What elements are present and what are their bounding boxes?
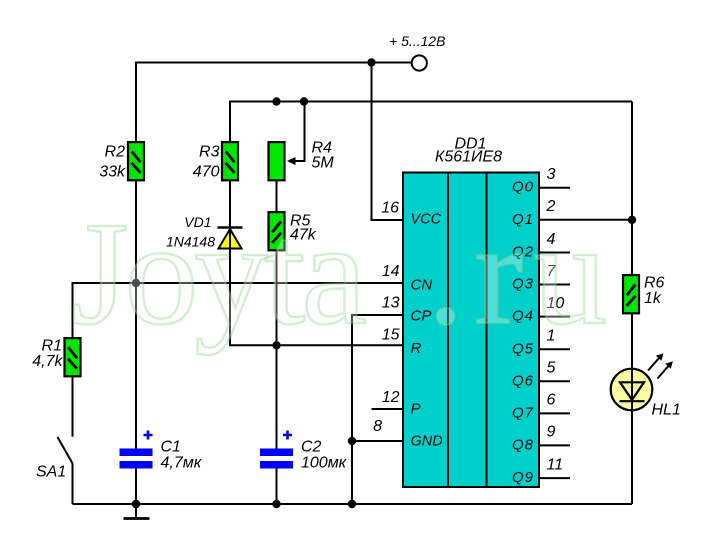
wire switch bottom lead <box>72 464 74 505</box>
wire right rail (Q1 to R6, LED, ground rail) <box>631 102 633 505</box>
node CN/R2/C1 junction <box>132 279 140 287</box>
wire output Q9 pin 11 <box>539 477 570 479</box>
wire R2 bottom to C1 <box>135 181 137 449</box>
svg-text:C2: C2 <box>301 439 322 456</box>
svg-text:33k: 33k <box>99 164 126 181</box>
diode VD1 1N4148 <box>219 229 242 249</box>
wire P stub (pin 12) <box>372 408 404 410</box>
svg-text:R1: R1 <box>42 338 62 355</box>
node Q1 junction <box>628 216 636 224</box>
resistor R5 <box>269 212 285 250</box>
svg-text:К561ИЕ8: К561ИЕ8 <box>435 149 502 166</box>
svg-text:16: 16 <box>381 200 399 217</box>
resistor R6 <box>623 275 639 313</box>
svg-text:HL1: HL1 <box>652 402 681 419</box>
wire +V top rail (R2 top to power terminal) <box>136 63 412 142</box>
ground symbol <box>135 504 137 518</box>
wire R4-R5 link <box>276 181 278 211</box>
wire output Q5 pin 1 <box>539 348 570 350</box>
svg-text:4,7мк: 4,7мк <box>161 455 203 472</box>
wire R4 wiper arm <box>294 102 305 162</box>
LED arrows <box>648 356 670 378</box>
C2 plus sign <box>283 431 292 440</box>
svg-text:P: P <box>411 401 421 418</box>
node CP ground junction <box>348 500 356 508</box>
wire output Q3 pin 7 <box>539 284 570 286</box>
svg-text:R: R <box>411 340 422 357</box>
node C1 ground junction <box>132 500 140 508</box>
wire GND pin 8 <box>352 440 403 442</box>
node C2 ground junction <box>272 500 280 508</box>
wire R3/VD1 column to pin 15 (R net) <box>230 181 403 345</box>
svg-text:R3: R3 <box>199 144 220 161</box>
LED HL1 <box>611 369 653 411</box>
svg-text:15: 15 <box>382 327 400 344</box>
svg-text:470: 470 <box>193 164 220 181</box>
svg-text:14: 14 <box>382 263 400 280</box>
svg-text:9: 9 <box>547 424 556 441</box>
node R4 top junction <box>272 97 280 105</box>
node R4 wiper junction <box>300 97 308 105</box>
wire output Q4 pin 10 <box>539 316 570 318</box>
svg-text:6: 6 <box>547 392 556 409</box>
potentiometer R4 <box>269 142 285 180</box>
svg-text:Q8: Q8 <box>512 436 534 453</box>
svg-text:5M: 5M <box>312 155 335 172</box>
svg-text:12: 12 <box>382 389 400 406</box>
svg-text:R2: R2 <box>105 144 126 161</box>
wire output Q6 pin 5 <box>539 380 570 382</box>
resistor R3 <box>222 142 238 180</box>
svg-text:+ 5...12В: + 5...12В <box>389 33 445 49</box>
wire bottom ground rail <box>73 503 633 505</box>
capacitor C2 <box>260 449 293 457</box>
C1 plus sign <box>144 431 153 440</box>
resistor R1 <box>65 338 81 376</box>
switch SA1 blade <box>58 437 73 464</box>
wire VD1 lead overlay <box>229 228 231 250</box>
svg-text:11: 11 <box>547 456 564 473</box>
wire CP net (pin 13 to ground rail) <box>352 315 403 504</box>
node power junction <box>367 58 375 66</box>
wire output Q1 pin 2 <box>539 219 632 221</box>
wire feedback top rail (R3 top, R4 top, to right rail) <box>230 102 632 142</box>
svg-text:C1: C1 <box>161 439 181 456</box>
svg-text:GND: GND <box>411 434 443 450</box>
wire C2 bottom lead <box>276 469 278 505</box>
wire VCC feed (pin 16) <box>372 63 404 221</box>
IC DD1 K561IE8 body <box>403 173 539 488</box>
svg-text:8: 8 <box>373 418 382 435</box>
wire output Q7 pin 6 <box>539 412 570 414</box>
capacitor C1 <box>120 449 153 457</box>
node R net / R5-C2 junction <box>272 341 280 349</box>
wire C1 bottom lead <box>135 469 137 505</box>
wire output Q8 pin 9 <box>539 444 570 446</box>
wire R1 bottom to switch <box>72 378 74 437</box>
svg-text:Q7: Q7 <box>512 404 534 421</box>
wire output Q0 pin 3 <box>539 187 570 189</box>
svg-text:R6: R6 <box>644 275 665 292</box>
R4 wiper arrowhead <box>287 157 296 165</box>
wire CN net (left rail top, R2 bottom, C1 top, to pin 14) <box>73 283 404 337</box>
svg-text:13: 13 <box>382 295 400 312</box>
svg-text:100мк: 100мк <box>301 455 348 472</box>
wire output Q2 pin 4 <box>539 252 570 254</box>
resistor R2 <box>128 142 144 180</box>
svg-text:SA1: SA1 <box>36 464 66 481</box>
svg-text:5: 5 <box>547 360 556 377</box>
svg-text:Q9: Q9 <box>512 469 534 486</box>
svg-text:1k: 1k <box>644 290 662 307</box>
wire R5 bottom to C2 top <box>276 252 278 449</box>
svg-text:Q6: Q6 <box>512 372 534 389</box>
svg-text:3: 3 <box>547 166 556 183</box>
power terminal circle <box>412 55 427 70</box>
svg-text:4,7k: 4,7k <box>32 353 63 370</box>
node GND junction <box>348 437 356 445</box>
